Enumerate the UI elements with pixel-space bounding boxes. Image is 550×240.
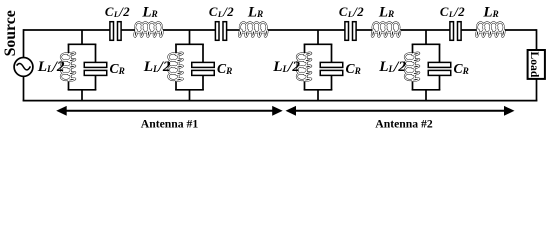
capacitor CL/2 #2 bbox=[215, 22, 226, 41]
wire load top lead bbox=[536, 29, 538, 50]
wire cell 2 left lower bbox=[175, 79, 177, 89]
wire cell 4 bottom stub bbox=[425, 90, 427, 101]
wire bottom rail bbox=[23, 100, 538, 102]
wire top rail segment 1 bbox=[24, 29, 110, 31]
wire top rail segment 3 bbox=[161, 29, 215, 31]
wire cell 2 top stub bbox=[189, 30, 191, 44]
AC source sine wave bbox=[17, 63, 31, 69]
wire cell 1 right lower bbox=[95, 75, 97, 90]
capacitor CL/2 #3 bbox=[345, 22, 356, 41]
wire cell 1 top edge bbox=[68, 43, 97, 45]
wire cell 4 top edge bbox=[412, 43, 441, 45]
svg-text:Load: Load bbox=[528, 52, 541, 78]
wire cell 3 left upper bbox=[304, 44, 306, 54]
wire top rail segment 6 bbox=[356, 29, 373, 31]
capacitor CR #2 bbox=[192, 62, 215, 75]
inductor LL/2 #4 bbox=[405, 53, 419, 81]
inductor LR #2 bbox=[239, 22, 267, 36]
wire cell 4 left lower bbox=[412, 79, 414, 89]
wire top rail segment 5 bbox=[266, 29, 345, 31]
wire cell 3 bottom edge bbox=[304, 89, 333, 91]
wire cell 1 top stub bbox=[81, 30, 83, 44]
wire cell 3 bottom stub bbox=[317, 90, 319, 101]
wire top rail segment 9 bbox=[503, 29, 536, 31]
inductor LR #4 bbox=[476, 22, 504, 36]
AC source circle bbox=[14, 58, 33, 77]
wire cell 3 top stub bbox=[317, 30, 319, 44]
wire cell 4 right upper bbox=[439, 44, 441, 63]
wire cell 3 right upper bbox=[331, 44, 333, 63]
antenna 1 extent arrow bbox=[65, 110, 275, 112]
wire top rail segment 7 bbox=[399, 29, 450, 31]
inductor LR #1 bbox=[134, 22, 162, 36]
svg-text:Source: Source bbox=[2, 10, 19, 56]
wire cell 1 right upper bbox=[95, 44, 97, 63]
svg-text:Antenna #2: Antenna #2 bbox=[375, 118, 433, 129]
wire cell 1 left upper bbox=[68, 44, 70, 54]
wire cell 3 left lower bbox=[304, 79, 306, 89]
svg-text:Antenna #1: Antenna #1 bbox=[141, 118, 199, 129]
wire source bottom lead bbox=[23, 76, 25, 101]
wire cell 3 right lower bbox=[331, 75, 333, 90]
wire top rail segment 2 bbox=[121, 29, 136, 31]
wire top rail segment 8 bbox=[461, 29, 478, 31]
wire cell 4 top stub bbox=[425, 30, 427, 44]
capacitor CR #3 bbox=[320, 62, 343, 75]
wire cell 2 bottom edge bbox=[175, 89, 204, 91]
antenna 2 extent arrow bbox=[294, 110, 506, 112]
wire cell 2 left upper bbox=[175, 44, 177, 54]
capacitor CR #1 bbox=[84, 62, 107, 75]
capacitor CL/2 #1 bbox=[110, 22, 121, 41]
wire load bottom lead bbox=[536, 79, 538, 101]
wire top rail segment 4 bbox=[227, 29, 241, 31]
wire cell 2 right lower bbox=[202, 75, 204, 90]
inductor LL/2 #2 bbox=[168, 53, 182, 81]
inductor LR #3 bbox=[372, 22, 400, 36]
wire cell 3 top edge bbox=[304, 43, 333, 45]
wire cell 4 bottom edge bbox=[412, 89, 441, 91]
wire cell 4 left upper bbox=[412, 44, 414, 54]
inductor LL/2 #1 bbox=[61, 53, 75, 81]
inductor LL/2 #3 bbox=[297, 53, 311, 81]
wire cell 2 top edge bbox=[175, 43, 204, 45]
wire cell 2 bottom stub bbox=[189, 90, 191, 101]
wire cell 1 left lower bbox=[68, 79, 70, 89]
wire cell 1 bottom edge bbox=[68, 89, 97, 91]
capacitor CR #4 bbox=[428, 62, 451, 75]
capacitor CL/2 #4 bbox=[450, 22, 461, 41]
wire cell 2 right upper bbox=[202, 44, 204, 63]
wire cell 1 bottom stub bbox=[81, 90, 83, 101]
wire source top lead bbox=[23, 29, 25, 58]
wire cell 4 right lower bbox=[439, 75, 441, 90]
load box bbox=[528, 50, 545, 79]
